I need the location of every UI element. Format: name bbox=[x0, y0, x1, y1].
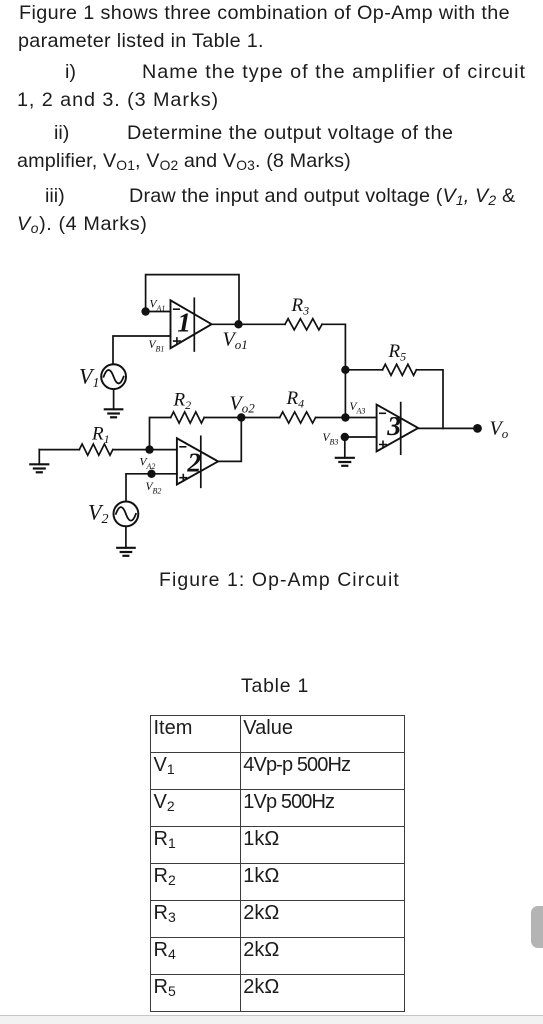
node Vo1 output dot bbox=[234, 320, 242, 328]
wire: op-amp3 output to Vo bbox=[418, 427, 477, 429]
svg-text:Vo1: Vo1 bbox=[223, 329, 248, 353]
node: junction of R3, R5 and VA3 bbox=[341, 366, 349, 374]
bottom bar bbox=[0, 1015, 543, 1024]
table 1 bbox=[150, 715, 405, 1012]
table title bbox=[241, 675, 309, 698]
node Vo output dot bbox=[473, 424, 482, 433]
svg-text:VB2: VB2 bbox=[146, 481, 162, 496]
ground at R1 input bbox=[38, 450, 40, 465]
ground under V2 bbox=[125, 526, 127, 547]
wire: op-amp1 output to R3 bbox=[212, 323, 285, 325]
question text bbox=[19, 4, 510, 23]
svg-text:1: 1 bbox=[177, 307, 191, 338]
resistor R2 bbox=[171, 412, 205, 423]
wire: R3 to summing junction bbox=[322, 324, 345, 370]
op-amp U3 bbox=[377, 405, 419, 452]
svg-text:V1: V1 bbox=[79, 364, 99, 392]
svg-text:VB3: VB3 bbox=[323, 432, 339, 447]
wire: R1 to inverting input of op-amp 2 bbox=[113, 449, 177, 451]
node Vo2 dot bbox=[237, 413, 245, 421]
wire: Vo2 to R4 bbox=[241, 417, 279, 419]
wire: op-amp1 feedback loop from output to inverting input bbox=[146, 275, 239, 325]
svg-text:2: 2 bbox=[186, 446, 201, 477]
svg-text:R4: R4 bbox=[286, 388, 305, 411]
resistor R4 bbox=[280, 412, 316, 423]
wire: op-amp2 output up to Vo2 bbox=[218, 418, 241, 462]
node VB3 dot bbox=[341, 433, 349, 441]
svg-text:Vo2: Vo2 bbox=[230, 393, 256, 416]
svg-text:R3: R3 bbox=[291, 295, 310, 318]
resistor R3 bbox=[285, 319, 322, 330]
wire: non-inverting input of op-amp 3 to VB3 bbox=[345, 436, 377, 438]
op-amp U2 bbox=[177, 438, 218, 484]
wire: inverting input of op-amp 1 bbox=[146, 311, 171, 313]
source V1 bbox=[101, 364, 126, 389]
wire: R2 to Vo2 node bbox=[204, 417, 241, 419]
svg-text:R5: R5 bbox=[388, 341, 407, 364]
figure caption bbox=[159, 569, 400, 592]
wire: R4 to VA3 node bbox=[316, 417, 377, 419]
svg-text:R2: R2 bbox=[173, 390, 192, 413]
svg-text:V2: V2 bbox=[88, 500, 108, 528]
ground under V1 bbox=[113, 389, 115, 409]
node VA3 dot bbox=[341, 413, 349, 421]
wire: non-inverting input of op-amp 2 to source V2 bbox=[126, 474, 177, 502]
op-amp U1 bbox=[171, 300, 212, 348]
wire: junction down to VA3 bbox=[344, 370, 346, 418]
node VA2 dot bbox=[145, 445, 153, 453]
svg-text:VB1: VB1 bbox=[149, 339, 165, 354]
ground under VB3 bbox=[344, 437, 346, 458]
svg-text:3: 3 bbox=[386, 410, 401, 441]
source V2 bbox=[114, 502, 139, 527]
wire: junction to R5 bbox=[345, 369, 382, 371]
svg-text:VA3: VA3 bbox=[350, 401, 366, 416]
resistor R1 bbox=[79, 444, 113, 455]
svg-text:Vo: Vo bbox=[490, 418, 509, 442]
svg-text:VA2: VA2 bbox=[140, 457, 156, 472]
wire: VA2 up to R2 feedback line bbox=[150, 418, 171, 450]
wire: non-inverting input of op-amp 1 to source V1 bbox=[113, 336, 171, 364]
wire: R5 to op-amp3 output bbox=[416, 370, 443, 429]
node VA1 junction dot bbox=[141, 307, 149, 315]
svg-text:R1: R1 bbox=[91, 424, 110, 447]
circuit figure bbox=[0, 255, 543, 580]
node VB2 dot bbox=[147, 470, 155, 478]
scrollbar thumb bbox=[531, 906, 543, 948]
wire: ground to R1 bbox=[39, 449, 79, 451]
resistor R5 bbox=[383, 364, 417, 375]
